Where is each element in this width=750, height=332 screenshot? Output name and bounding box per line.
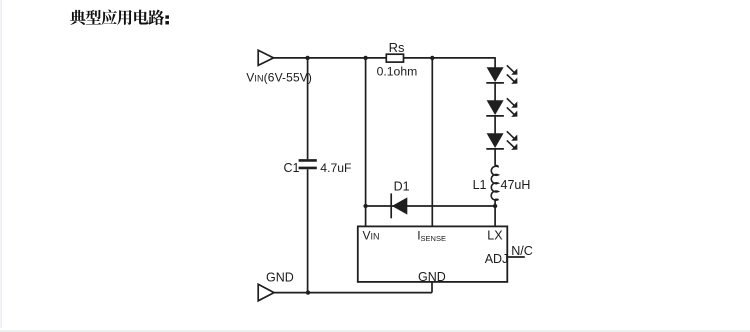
wire LED1-LED2 segment — [494, 82, 496, 101]
page border left — [0, 0, 2, 328]
svg-text:ADJ: ADJ — [485, 252, 509, 266]
svg-text:C1: C1 — [284, 161, 300, 175]
LED LED2 cathode bar — [486, 115, 504, 117]
svg-text:VIN: VIN — [363, 229, 380, 243]
capacitor C1 top plate — [299, 159, 317, 162]
svg-text:D1: D1 — [394, 179, 410, 193]
LED LED1 triangle — [487, 67, 504, 82]
LED LED3 cathode bar — [486, 148, 504, 150]
svg-text:LX: LX — [487, 229, 503, 243]
resistor Rs body — [386, 54, 403, 62]
wire C1 branch lower — [307, 169, 309, 292]
LED LED2 triangle — [487, 100, 504, 115]
title 典型应用电路： — [70, 10, 169, 25]
wire LED3-inductor segment — [494, 148, 496, 166]
wire N/C stub — [507, 256, 525, 258]
diode D1 triangle — [392, 197, 407, 214]
svg-text:Rs: Rs — [389, 40, 405, 55]
wire VIN pin vertical — [365, 58, 367, 227]
connector VIN triangle — [258, 50, 273, 65]
node junction top VIN — [363, 56, 367, 60]
page border bottom — [0, 330, 750, 332]
svg-text:0.1ohm: 0.1ohm — [377, 65, 418, 79]
svg-text:4.7uF: 4.7uF — [320, 161, 351, 175]
LED LED1 cathode bar — [486, 82, 504, 84]
wire LED chain top segment — [494, 58, 496, 68]
wire ISENSE pin vertical — [431, 58, 433, 227]
wire GND rail — [274, 292, 432, 294]
wire top rail right of Rs — [404, 57, 496, 59]
capacitor C1 bottom plate — [299, 167, 317, 170]
node junction diode right LX — [493, 204, 497, 208]
connector GND triangle — [258, 284, 274, 301]
node junction diode left — [363, 204, 367, 208]
svg-text:GND: GND — [266, 270, 294, 284]
wire top rail left — [274, 57, 387, 59]
wire GND pin vertical — [431, 282, 433, 293]
wire inductor to LX — [494, 199, 496, 226]
svg-text:L1: L1 — [473, 178, 487, 192]
node junction top C1 — [305, 56, 309, 60]
node junction top ISENSE — [430, 56, 434, 60]
svg-text:VIN(6V-55V): VIN(6V-55V) — [246, 71, 312, 85]
wire C1 branch upper — [307, 58, 309, 159]
diode D1 cathode bar — [390, 193, 392, 218]
svg-text:N/C: N/C — [511, 244, 533, 258]
svg-text:GND: GND — [418, 270, 446, 284]
wire diode row horizontal — [366, 205, 496, 207]
wire LED2-LED3 segment — [494, 115, 496, 134]
node junction GND rail — [306, 290, 310, 294]
svg-text:47uH: 47uH — [501, 178, 531, 192]
inductor L1 coil — [491, 165, 498, 200]
LED light arrows — [507, 65, 517, 149]
svg-text:ISENSE: ISENSE — [417, 229, 446, 243]
IC box U1 — [358, 226, 508, 282]
LED LED3 triangle — [487, 133, 504, 148]
